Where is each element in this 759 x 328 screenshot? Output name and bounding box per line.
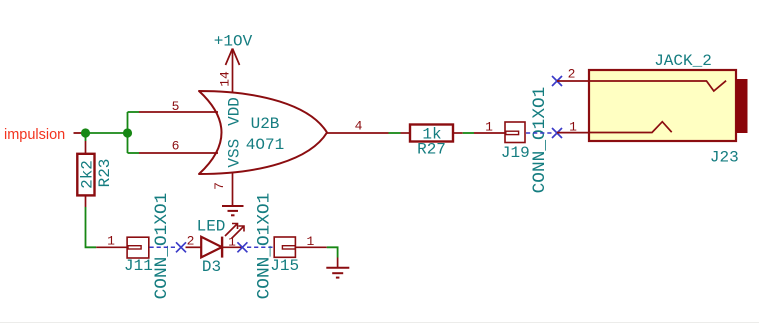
- svg-text:CONN_O1XO1: CONN_O1XO1: [255, 193, 275, 300]
- power symbol +10V: [214, 33, 253, 66]
- no-connect X at jack pin 2: [552, 76, 562, 86]
- connector J19 CONN_01X01: [474, 87, 550, 194]
- pin 7 VSS: [212, 172, 233, 206]
- pin 5 of U2B: [139, 99, 218, 114]
- ground under gate: [222, 206, 244, 215]
- connector J15 CONN_01X01: [255, 193, 327, 300]
- no-connect X at LED pin 1: [237, 242, 247, 252]
- svg-text:1: 1: [569, 119, 577, 134]
- net label impulsion: [4, 127, 65, 143]
- bottom window edge: [0, 322, 759, 323]
- wire to pin 6: [128, 152, 140, 154]
- svg-text:J19: J19: [501, 144, 530, 162]
- jack pin 2: [557, 67, 589, 82]
- no-connect X at LED pin 2: [176, 242, 186, 252]
- junction node B: [123, 128, 132, 137]
- wire stub at label: [74, 132, 82, 134]
- no-connect X at jack pin 1: [552, 128, 562, 138]
- svg-text:2: 2: [187, 233, 195, 248]
- svg-text:J11: J11: [124, 257, 153, 275]
- svg-text:CONN_O1XO1: CONN_O1XO1: [152, 193, 172, 300]
- svg-text:2: 2: [568, 67, 576, 82]
- svg-text:7: 7: [212, 182, 227, 190]
- svg-text:1: 1: [485, 120, 493, 135]
- svg-text:6: 6: [172, 139, 180, 154]
- svg-text:5: 5: [172, 99, 180, 114]
- svg-text:LED: LED: [197, 218, 226, 236]
- svg-text:2k2: 2k2: [79, 160, 97, 189]
- wire node A down to R23: [85, 133, 87, 141]
- svg-text:impulsion: impulsion: [4, 127, 65, 143]
- junction node A: [81, 128, 90, 137]
- svg-text:U2B: U2B: [251, 115, 280, 133]
- svg-text:VSS: VSS: [226, 139, 244, 168]
- svg-text:14: 14: [218, 71, 233, 87]
- wire gate output to R27: [389, 132, 401, 134]
- pin 4 output of U2B: [327, 119, 389, 134]
- svg-text:R27: R27: [417, 141, 446, 159]
- wire impulsion horizontal: [81, 132, 128, 134]
- wire R23 down and to J11: [86, 207, 97, 247]
- svg-text:JACK_2: JACK_2: [654, 52, 712, 70]
- svg-text:D3: D3: [202, 258, 221, 276]
- LED D3: [186, 218, 245, 277]
- svg-text:4O71: 4O71: [246, 136, 284, 154]
- wire stub to ground 2: [337, 258, 339, 268]
- svg-text:J15: J15: [270, 257, 299, 275]
- notes dashed line LED to J15: [247, 246, 274, 248]
- svg-text:1: 1: [228, 235, 236, 250]
- svg-text:1: 1: [306, 234, 314, 249]
- svg-text:R23: R23: [96, 159, 114, 188]
- wire to pin 5: [128, 111, 140, 113]
- wire J15 to ground: [327, 247, 338, 257]
- resistor R27 1k: [401, 125, 463, 159]
- resistor R23 2k2: [77, 141, 114, 207]
- pin 14 VDD: [218, 49, 233, 94]
- jack J23 JACK_2 body: [589, 52, 748, 167]
- svg-text:1: 1: [107, 233, 115, 248]
- notes dashed line J19 to jack pin1: [526, 132, 553, 134]
- or-gate U2B 4071 body: [199, 91, 327, 174]
- wire R27 to J19: [463, 132, 474, 134]
- ground near J15: [326, 268, 349, 278]
- pin 6 of U2B: [139, 139, 218, 154]
- svg-text:CONN_O1XO1: CONN_O1XO1: [530, 87, 550, 194]
- svg-text:J23: J23: [710, 149, 739, 167]
- svg-text:+1OV: +1OV: [214, 33, 253, 51]
- jack pin 1: [557, 119, 589, 134]
- connector J11 CONN_01X01: [96, 193, 172, 300]
- wire vertical split to gate inputs: [127, 112, 129, 153]
- svg-text:VDD: VDD: [226, 97, 244, 126]
- svg-text:4: 4: [355, 119, 363, 134]
- notes dashed line J11 to LED: [150, 246, 177, 248]
